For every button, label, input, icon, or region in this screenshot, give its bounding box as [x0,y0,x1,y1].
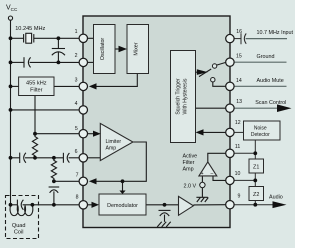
svg-text:Amp: Amp [106,145,117,151]
wire trimmer branch vertical [57,38,59,48]
455 kHz filter FL1 box [19,77,54,96]
wire cap to pin2 [30,61,80,63]
IC body U1 [83,16,230,228]
wire filter to pin3 [54,85,79,87]
pin 16 [226,34,234,42]
svg-text:16: 16 [236,29,242,35]
arrow pin5 into limiter [93,131,101,137]
pin 6 [79,154,87,162]
svg-text:+: + [201,171,204,177]
svg-text:Limiter: Limiter [106,139,122,145]
wire pin1 line left [11,37,24,39]
pin 11 [226,149,234,157]
arrow pin8 into demodulator [92,202,100,208]
capacitor C3 [19,153,21,163]
oscillator U1a box [94,25,116,74]
wire pin8 line in coil box [11,204,18,206]
svg-text:Mixer: Mixer [134,42,140,55]
arrow limiter line to pin7 [89,178,97,184]
wire pin2 to oscillator [88,61,94,63]
svg-text:4: 4 [75,101,78,107]
node coil right [31,203,35,207]
capacitor C4 [62,153,64,163]
quad coil dashed box [6,196,39,239]
noise detector box [244,121,281,140]
wire cap4 to pin6 [69,157,80,159]
wire pin11 to Z1 node [234,152,255,154]
svg-text:With Hysteresis: With Hysteresis [182,78,188,114]
node R2-pin7 [52,179,56,183]
svg-text:Coil: Coil [14,229,24,235]
Vcc terminal [8,16,12,20]
capacitor C6 [16,200,18,210]
svg-text:12: 12 [235,120,241,126]
wire pin12 to noise detector [234,131,243,133]
svg-text:Amp: Amp [183,166,194,172]
junction dots right [253,151,257,206]
crystal body [26,33,32,43]
2.0V reference node circle [200,182,205,187]
squelch trigger U1c box [171,51,196,143]
wire squelch to pin13 [196,107,226,109]
wire to pin8 [23,204,80,206]
pin 9 [226,201,234,209]
svg-text:Filter: Filter [183,160,195,166]
node R1 bottom [33,132,37,136]
svg-text:2: 2 [75,53,78,59]
pin 10 [226,176,234,184]
pin 5 [79,130,87,138]
inductor L1 quad coil windings [10,206,33,216]
wire active filter minus to pin10 [213,176,226,181]
pin 4 [79,106,87,114]
node Vcc-pin1 [9,36,13,40]
node C5-pin8 [52,203,56,207]
wire pin10 to Z node [234,179,255,181]
resistor R2 [51,158,56,182]
wire pin6 to limiter [88,157,101,159]
wire pin7 line [54,180,79,182]
svg-text:Ground: Ground [257,54,275,60]
pin 1 [79,34,87,42]
wire pin2 line left [11,61,25,63]
svg-text:9: 9 [238,193,241,199]
wire cap to 10.7 input [246,38,287,40]
wire junction to demodulator [122,181,124,191]
svg-text:11: 11 [235,144,240,150]
node trimmer bottom [57,61,61,65]
pin 12 [226,128,234,136]
active filter amp U1f triangle [199,162,217,176]
arrow mixer to pin3 [89,83,97,89]
node Vcc-pin2 [9,61,13,65]
svg-text:Z2: Z2 [253,192,259,198]
wire active filter plus to 2.0V [201,176,203,183]
wire demodulator to opamp [146,204,179,206]
wire pin16 to cap [234,38,241,40]
impedance Z2 box [249,187,264,201]
wire contact to pin15 [217,62,226,65]
pin 7 [79,177,87,185]
svg-text:15: 15 [236,53,242,59]
wire opamp output to pin9 [193,204,225,206]
impedance Z1 box [249,159,264,173]
svg-text:Filter: Filter [30,87,43,93]
svg-text:455 kHz: 455 kHz [26,81,47,87]
svg-text:Active: Active [183,154,198,160]
node R1-pin6 [33,156,37,160]
crystal X1 plates [23,34,25,42]
node pin11-Z1 [253,151,257,155]
arrow pin12 into squelch [196,129,204,135]
svg-text:2.0 V: 2.0 V [184,183,197,189]
switch blade [199,69,211,77]
svg-text:Noise: Noise [254,125,267,131]
demodulator U1e box [99,194,146,215]
op-amp U1g triangle [179,196,194,215]
svg-text:Oscillator: Oscillator [100,38,106,61]
junction dot demod output [163,203,167,207]
svg-text:−: − [210,171,213,177]
capacitor C5 [49,186,60,188]
node Vcc-pin4 [9,108,13,112]
wire squelch to switch arrow stub [196,71,199,73]
capacitor C8 10.7MHz input [240,33,242,44]
svg-text:Scan Control: Scan Control [255,100,286,106]
limiter amp U1d triangle [100,123,133,160]
wire limiter output to pin7 [97,142,147,181]
pin number labels [75,29,79,201]
svg-text:5: 5 [75,126,78,132]
capacitor C7 demod output [159,209,171,211]
ground 2.0V [196,197,208,202]
svg-text:Audio Mute: Audio Mute [257,78,284,84]
wire oscillator to mixer [115,48,119,50]
pin 13 [226,104,234,112]
wire pin5 arrow stub [88,133,94,135]
mixer U1b box [127,25,149,74]
pin 2 [79,58,87,66]
trimmer capacitor C1 [52,48,65,50]
pin 14 [226,82,234,90]
svg-text:14: 14 [236,78,242,84]
capacitor C2 [23,57,25,67]
svg-text:Detector: Detector [251,132,270,138]
wire 2.0V to ground [201,188,203,198]
wire pin6 line left [11,157,20,159]
node Vcc-pin6 [9,156,13,160]
wire pin12 to squelch arrow [203,131,226,133]
wire pin14 audio mute [234,85,286,87]
svg-text:8: 8 [76,195,79,201]
wire crystal to pin1 [34,37,79,39]
wire active filter output to pin11 [208,153,226,162]
switch contact upper [212,64,216,68]
wire noise detector down chain [254,140,256,159]
node pin9-Z2 [253,203,257,207]
wire pin4 line [11,109,80,111]
wire pin1 to oscillator [88,37,94,39]
svg-text:Quad: Quad [12,223,26,229]
resistor R1 [32,134,37,158]
wire contact to pin14 [213,82,226,87]
wire pin13 scan control [234,107,279,109]
svg-text:Demodulator: Demodulator [107,203,138,209]
ground demod [157,222,171,227]
pin 3 [79,82,87,90]
arrow squelch to switch [197,69,208,75]
switch contact lower [211,78,215,82]
svg-text:3: 3 [75,78,78,84]
arrow scan control [277,104,292,112]
pin 15 [226,58,234,66]
node Vcc-filter [9,85,13,89]
junction dot limiter-demod [121,179,125,183]
svg-text:1: 1 [75,29,78,35]
wire pin15 ground [234,61,286,63]
wire rail to filter [11,85,19,87]
svg-text:13: 13 [236,99,242,105]
wire pin5 line [35,133,79,135]
Vcc rail wire [10,20,12,205]
node pin10-Z [253,179,257,183]
node Vcc-coil [9,203,13,207]
svg-text:6: 6 [75,149,78,155]
svg-text:10.245 MHz: 10.245 MHz [15,26,45,32]
wire pin6 mid [25,157,63,159]
svg-text:7: 7 [76,173,79,179]
pin 8 [79,201,87,209]
wire filter bottom vertical [34,96,36,134]
junction dots left [9,36,61,206]
node trimmer top [57,36,61,40]
arrow audio [273,201,287,208]
arrow osc to mixer [119,46,128,52]
svg-text:Audio: Audio [269,194,283,200]
arrow into demodulator top [119,191,125,195]
wire mixer output to pin3 [96,74,137,87]
node R2 top [52,156,56,160]
svg-text:Squelch Trigger: Squelch Trigger [176,78,182,115]
wire pin9 audio [234,204,274,206]
svg-text:10: 10 [235,171,241,177]
wire pin8 to demodulator [88,204,92,206]
svg-text:10.7 MHz Input: 10.7 MHz Input [257,30,294,36]
svg-text:Z1: Z1 [253,165,259,171]
